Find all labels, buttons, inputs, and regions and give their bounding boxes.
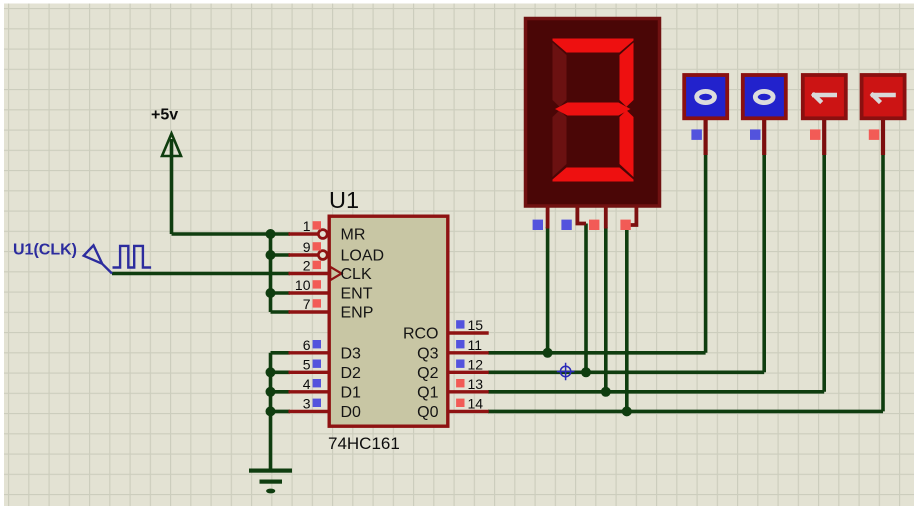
MR inversion bubble: [318, 230, 327, 239]
wire display pinC down to Q1 net: [604, 227, 608, 392]
svg-text:RCO: RCO: [403, 326, 439, 343]
svg-text:D0: D0: [341, 404, 362, 421]
probe4 stem: [881, 118, 885, 155]
svg-text:LOAD: LOAD: [341, 248, 385, 265]
state square pin 3 (low): [313, 399, 321, 407]
pin 2 CLK stub: [289, 272, 328, 275]
wire bus to D2: [271, 370, 291, 374]
svg-text:12: 12: [468, 356, 484, 372]
clock waveform: [113, 246, 152, 268]
junction bus/D2: [266, 367, 276, 377]
probe2 stem: [762, 118, 766, 155]
wire left bus lower (D3 to ground): [269, 353, 273, 469]
pin 4 D1 stub: [289, 390, 328, 393]
pin 12 Q2 stub: [448, 371, 489, 374]
wire bus to ENP: [271, 310, 291, 314]
probe3 stem: [822, 118, 826, 155]
display pin state squares: [533, 220, 631, 230]
CLK edge triangle: [330, 267, 341, 280]
IC U1 74HC161: [328, 187, 448, 453]
IC body: [329, 216, 448, 426]
wire Q1 horizontal to probe3 column: [488, 390, 824, 394]
probe3 digit 1: [812, 93, 837, 102]
segment f (dim): [553, 43, 567, 107]
origin crosshair marker: [557, 363, 575, 381]
wire display pinA down to Q3 net: [546, 227, 550, 353]
svg-text:D1: D1: [341, 384, 362, 401]
state square pin 9 (high): [313, 242, 321, 250]
svg-text:7: 7: [303, 296, 311, 312]
wire bus to LOAD: [271, 253, 291, 257]
LOAD inversion bubble: [318, 251, 327, 260]
pin 15 RCO stub: [448, 331, 489, 334]
wire display pinD down to Q0 net: [625, 225, 629, 411]
IC pin name labels: [341, 227, 439, 421]
state square pin 5 (low): [313, 360, 321, 368]
svg-text:4: 4: [303, 376, 311, 392]
display body: [526, 19, 660, 207]
IC right pin stubs: [448, 333, 489, 411]
segment b (lit): [620, 43, 634, 107]
svg-text:ENP: ENP: [341, 305, 374, 322]
display pinC square (high): [589, 220, 599, 230]
junction bus/ENT: [266, 288, 276, 298]
ground: [249, 469, 292, 494]
probe2 box: [743, 75, 786, 118]
state square pin 13 (high): [456, 379, 464, 387]
svg-text:+5v: +5v: [151, 107, 178, 124]
display pinD square (high): [620, 220, 630, 230]
pin 5 D2 stub: [289, 371, 328, 374]
svg-text:U1: U1: [329, 187, 359, 213]
pin 1 MR stub: [289, 232, 318, 235]
display pin D wire: [627, 206, 636, 225]
probe3 state square (high): [810, 129, 821, 140]
wire probe3 column vertical: [822, 154, 826, 392]
probe3 box: [803, 75, 846, 118]
svg-text:1: 1: [303, 218, 311, 234]
power +5v symbol: [151, 107, 181, 157]
wire +5v stem down: [170, 139, 174, 234]
probe1 digit 0: [697, 91, 715, 102]
pin 14 Q0 stub: [448, 410, 489, 413]
state square pin 12 (low): [456, 360, 464, 368]
logic probe 3 (1): [803, 75, 846, 155]
junction bus/D1: [266, 387, 276, 397]
svg-text:Q1: Q1: [417, 384, 438, 401]
junction Q2/display pinB: [581, 367, 591, 377]
wire left bus upper (MR to ENP): [269, 234, 273, 312]
probe1 state square (low): [691, 129, 702, 140]
junction bus/D0: [266, 406, 276, 416]
probe4 digit 1: [871, 93, 896, 102]
wire bus to D3: [271, 351, 291, 355]
pin 7 ENP stub: [289, 310, 328, 313]
svg-text:15: 15: [468, 317, 484, 333]
probe2 state square (low): [750, 129, 761, 140]
logic probe 2 (0): [743, 75, 786, 155]
svg-text:14: 14: [468, 395, 484, 411]
svg-text:2: 2: [303, 258, 311, 274]
pin 10 ENT stub: [289, 291, 328, 294]
state square pin 2 (high): [313, 261, 321, 269]
svg-text:6: 6: [303, 337, 311, 353]
wire clock to CLK pin: [112, 272, 290, 276]
wire bus to D1: [271, 390, 291, 394]
logic probe 4 (1): [862, 75, 905, 155]
wire bus to ENT: [271, 291, 291, 295]
state square pin 4 (low): [313, 379, 321, 387]
svg-text:9: 9: [303, 239, 311, 255]
pin 3 D0 stub: [289, 410, 328, 413]
state square pin 11 (low): [456, 340, 464, 348]
svg-text:Q2: Q2: [417, 365, 438, 382]
display pin A wire: [546, 206, 550, 229]
wire display pinB down to Q2 net: [584, 224, 588, 373]
segment e (dim): [553, 110, 567, 177]
IC left pin stubs: [289, 234, 328, 411]
svg-text:ENT: ENT: [341, 286, 373, 303]
wire probe1 column vertical: [704, 154, 708, 353]
display pin B wire: [577, 206, 586, 224]
wire Q2 horizontal to probe2 column: [488, 370, 764, 374]
svg-text:Q3: Q3: [417, 345, 438, 362]
display pin wires: [548, 206, 637, 229]
junction bus/LOAD: [266, 250, 276, 260]
7-segment display: [526, 19, 660, 207]
probe2 digit 0: [755, 91, 773, 102]
wire bus to D0: [271, 410, 291, 414]
svg-text:MR: MR: [341, 227, 366, 244]
svg-text:3: 3: [303, 395, 311, 411]
segment c (lit): [620, 110, 634, 177]
IC pin numbers: [295, 218, 483, 411]
probe1 box: [684, 75, 727, 118]
segment d (lit): [553, 168, 634, 182]
clock terminal triangle: [84, 245, 112, 273]
state square pin 15 (low): [456, 320, 464, 328]
state square pin 6 (low): [313, 340, 321, 348]
segment a (lit): [553, 39, 634, 53]
wire probe4 column vertical: [881, 154, 885, 411]
clock generator U1(CLK): [13, 242, 151, 274]
svg-text:10: 10: [295, 277, 311, 293]
probe1 stem: [703, 118, 707, 155]
svg-text:13: 13: [468, 376, 484, 392]
svg-text:74HC161: 74HC161: [328, 434, 400, 453]
svg-text:D2: D2: [341, 365, 362, 382]
svg-text:11: 11: [468, 337, 483, 353]
svg-text:5: 5: [303, 356, 311, 372]
display pin C wire: [604, 206, 608, 229]
pin 6 D3 stub: [289, 351, 328, 354]
pin 11 Q3 stub: [448, 351, 489, 354]
state square pin 14 (high): [456, 399, 464, 407]
state square pin 10 (high): [313, 280, 321, 288]
svg-text:CLK: CLK: [341, 266, 372, 283]
pin 9 LOAD stub: [289, 253, 318, 256]
junction bus/MR: [266, 229, 276, 239]
JUNCTION DOTS: [266, 229, 632, 416]
probe4 state square (high): [869, 129, 880, 140]
wire probe2 column vertical: [762, 154, 766, 372]
svg-text:U1(CLK): U1(CLK): [13, 242, 77, 259]
svg-text:Q0: Q0: [417, 404, 438, 421]
wire +5v to MR pin: [172, 232, 291, 236]
svg-text:D3: D3: [341, 345, 362, 362]
junction Q3/display pinA: [543, 348, 553, 358]
probe4 box: [862, 75, 905, 118]
state square pin 1 (high): [313, 221, 321, 229]
IC pin logic-state squares: [313, 221, 465, 407]
logic probe 1 (0): [684, 75, 727, 155]
junction Q1/display pinC: [601, 387, 611, 397]
segment g (lit): [555, 103, 631, 116]
display pinB square (low): [561, 220, 571, 230]
pin 13 Q1 stub: [448, 390, 489, 393]
wire Q3 horizontal to probe1 column: [488, 351, 706, 355]
state square pin 7 (high): [313, 299, 321, 307]
display pinA square (low): [533, 220, 543, 230]
wire Q0 horizontal to probe4 column: [488, 410, 883, 414]
junction Q0/display pinD: [622, 406, 632, 416]
